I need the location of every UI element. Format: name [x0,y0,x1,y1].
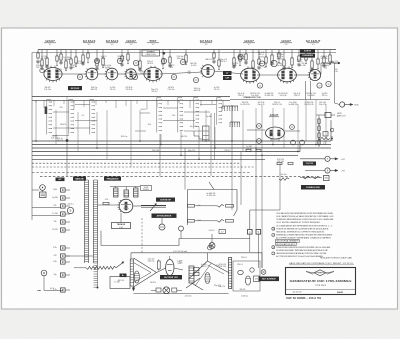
right ladder resistors [318,119,320,124]
cable band 1 rails [84,180,86,263]
vertical trunk x=241 [240,152,242,206]
wire [41,50,43,61]
capacitor C74 [322,64,325,66]
terminal J8 (-HT) [325,168,330,173]
left wire from border [32,207,61,209]
note line 8 [272,233,275,236]
capacitor C54 [138,68,141,70]
resistor R80 [188,205,195,208]
resistor R36 [329,55,331,62]
grid-cap C5 [180,59,185,64]
cable band 2 rails [93,180,95,263]
left wire 3 [32,189,39,191]
wire stub [56,63,58,66]
dark box FREQUENCE [104,177,121,181]
bus wire 9 [32,172,250,174]
rotary switch S7 wafer [219,99,222,101]
wire [298,50,300,57]
NOIR label box [141,186,152,191]
resistor R85 [226,220,234,223]
wire [139,50,141,62]
pin wire [65,213,70,215]
capacitor C10 [35,100,37,103]
pin wire [65,189,70,191]
coupling node E [238,54,243,59]
filter choke FC1 [189,266,194,283]
capacitor C58 [212,60,215,62]
rotary switch S5 wafer [180,99,183,101]
wire [75,50,77,58]
wire drop 16 [255,108,257,148]
step wire near X1 [194,131,203,139]
dashed drop x142 [141,218,143,254]
input jack J2 [40,185,46,191]
wire stub [291,65,293,68]
transformer T2 core diagonals [189,261,208,279]
attenuator slider bar [141,205,166,207]
wire [233,50,235,59]
note line 11 [276,243,297,246]
wire [271,50,273,56]
wire bottom across [66,255,94,257]
resistor R4 [56,56,58,61]
dark box RETOUR [68,86,82,90]
wire [96,50,98,61]
wire to J8 [305,170,325,172]
psu top wire [131,252,262,254]
capacitor C44 [59,61,62,63]
resistor R24 [252,61,254,68]
vertical trunk x=256 [255,148,257,230]
bus riser 1 [330,120,332,141]
resistor R60 [303,176,310,178]
capacitor C15 [83,100,85,107]
dark box ATTENUATEUR [152,214,177,218]
dark box SORTIE HF [156,198,175,202]
resistor R8 [75,57,77,63]
rotary switch S3 wafer [92,101,95,103]
wire drop 8 [139,110,141,141]
tube V1 envelope [44,68,62,81]
resistor R31 [298,56,300,61]
attenuator pad box [40,192,47,198]
meter box M1 [324,176,330,181]
resistor R29 [283,60,285,66]
dark box small [120,274,127,278]
second rail lower [32,99,230,101]
wire [46,50,48,59]
RC network right [323,132,328,137]
comb rail [222,105,238,107]
output jack J1 [340,102,345,107]
capacitor C12 [53,100,55,106]
wire [213,50,215,54]
dark box FUSIBLE [301,185,325,190]
switch junction dot [66,139,69,142]
grid-cap C2 [117,58,122,63]
resistor row under fuse [279,178,289,181]
wire [245,50,247,55]
capacitor C25 [189,100,191,108]
switch S3 frame [89,100,91,135]
test point TP5 [300,140,305,145]
bus riser 2 [299,145,301,152]
TARAGE box [112,223,131,229]
contact comb H2 [229,122,231,126]
coupling node D [193,77,198,82]
resistor R81 [188,220,195,223]
tube V6 envelope [202,65,215,78]
resistor R16 [162,59,164,64]
capacitor C42 [45,65,48,67]
wire [265,50,267,58]
wire [239,50,241,57]
resistor R40 [328,62,334,64]
wire stub [65,68,67,71]
wire [56,50,58,57]
resistor R11 [96,60,98,66]
wire out of V11 [285,130,300,132]
jog wire j [200,104,216,106]
psu diag wires [186,278,200,288]
capacitor C21 [146,100,148,109]
psu top terminal [208,246,212,250]
note line 6 [272,227,275,230]
wire drop 3 [66,97,68,142]
capacitor C68 [282,67,285,69]
note line 14 [272,252,275,255]
capacitor C13 [63,100,65,104]
lamp resistor right [172,288,177,292]
bus wire 10 [40,175,316,177]
vertical trunk x=211 [210,113,212,176]
wire drop 19 [283,108,285,148]
selenium rectifier SR1 [238,270,244,274]
test circle 16 [257,83,262,88]
test point circle 10 [326,81,331,86]
shielded cable band 2 [94,179,98,181]
capacitor C23 [167,100,169,105]
vertical trunk x=214.5 [214,113,216,160]
left border wire down [31,53,33,221]
connector pin P8 [61,254,66,258]
paper grain overlay [0,0,1,1]
wire drop 22 [315,100,317,145]
resistor R17 [169,57,171,63]
jog wire c [53,127,90,129]
capacitor C70 [297,63,300,65]
switch S1 frame [46,100,48,135]
resistor R3 [46,58,48,65]
loop right diag [234,210,238,216]
wire top interstage 6 [214,71,243,74]
capacitor C48 [81,62,84,64]
jog wire g [163,120,195,122]
resistor R21 [233,58,235,65]
transformer T2 secondary [205,273,210,284]
wire [70,50,72,60]
ext box B1 [325,113,331,118]
pin wire [65,255,70,257]
capacitor C56 [168,64,171,66]
loop mid wire [195,205,218,207]
test circle 17 [317,83,322,88]
psu enclosure right wire [261,253,263,268]
wire top interstage 8 [294,74,309,76]
wire top interstage 4 [136,73,147,75]
contact comb H1 [221,106,223,110]
bus wire 8 [32,166,255,168]
grid-cap C4 [161,58,166,63]
jog wire d [75,120,97,122]
vertical trunk x=262 [261,155,263,268]
connector cell [203,134,209,136]
HT dark box 2 [300,54,315,58]
jog wire i [184,130,202,132]
screen box [110,277,130,289]
resistor R22 [239,56,241,61]
note line 10 [276,239,300,242]
plate choke L3 [134,188,139,197]
wire chokes top [110,186,140,188]
wire stub [102,65,104,68]
bus wire 3 [32,147,331,149]
wire drop 20 [297,104,299,152]
wire stub [87,60,89,63]
dial lamp circle B [67,207,73,213]
wire top interstage 2 [98,73,106,75]
wire V9 anode up [320,63,322,74]
bottom heater zigzag [86,266,116,269]
oscillator box label [142,50,160,56]
switch S5 frame [177,98,179,133]
tube V9 envelope [309,69,320,80]
wire boxes down [249,234,251,252]
pin wire [65,205,70,207]
wire stub [317,66,319,69]
gain dark box [223,71,232,75]
test point TP3 [290,125,295,130]
wire drop 1 [35,100,37,141]
T2 stacked boxes [194,268,200,271]
test point TP1 [257,124,262,129]
bus wire 7 [32,162,240,164]
grid resistor R70 [103,202,109,204]
resistor R19 [213,53,215,58]
coupling node C [171,74,176,79]
second rail (cathode bus) [32,96,230,98]
resistor R5 [60,54,62,60]
resistor R33 [311,61,313,68]
top HT rail [38,49,336,51]
anode resistor chain to terminal [321,62,328,64]
dark box SECTEUR ALT [259,277,280,282]
resistor R34 [317,59,319,64]
wire [329,50,331,56]
wire into V11 [247,129,265,131]
wire drop 21 [305,100,307,141]
capacitor C26 [200,100,202,106]
wire J3 down [43,276,45,291]
terminal J7 (+HT) [325,156,330,161]
output tube V12 [119,199,133,213]
wire top interstage 5 [160,72,202,74]
capacitor C17 [105,100,107,103]
transformer T1 core diagonals [134,258,157,273]
tube V5 envelope [144,68,162,81]
wire [37,50,39,54]
capacitor C50 [95,67,98,69]
switch S6 frame [193,98,195,129]
heater arrow [116,263,123,268]
connector pin P6 [61,228,66,232]
wire tube to attenuator [133,205,141,207]
wire [218,50,220,61]
dark box SECTEUR [160,275,182,279]
bias cap box [219,230,226,234]
wire V12 to TARAGE [120,213,122,223]
title divider [286,288,356,290]
cathode resistor R51 [256,149,261,151]
connector pin P7 [61,246,66,250]
connector cell [203,139,209,141]
bias loop diagonal [209,182,214,190]
V9 cathode drops [305,81,307,100]
meter jack J4 [159,224,165,230]
terminal T1 [334,62,338,64]
wire [311,50,313,62]
wire from J2 [42,190,44,192]
electrolytic C30 [245,276,250,285]
capacitor C72 [310,68,313,70]
wire top interstage 3 [118,73,126,75]
capacitor C40 [36,60,39,62]
connector block X1 [203,126,210,141]
grid-cap C3 [133,60,138,65]
capacitor C28 [222,100,224,109]
rotary switch S2 wafer [71,101,74,103]
wire [87,50,89,54]
wire stub [41,67,43,70]
dark box MARCHE [73,177,86,181]
connector pin P1 [61,188,66,192]
resistor R14 [127,54,129,60]
wire to B1 [316,114,325,116]
wire [65,50,67,62]
test point TP2 [257,139,262,144]
resistor R18 [185,55,187,62]
wire stub [305,61,307,64]
resistor R26 [265,57,267,63]
coupling node A [77,74,82,79]
wire to J7 [300,158,325,160]
grid-cap C1 [94,58,99,63]
wire drop 12 [205,110,207,141]
resistor R32 [305,54,307,60]
resistor R25 [258,59,260,64]
psu enclosure left wire [130,253,132,259]
transformer T1 left winding [130,259,133,286]
bias loop top wire [188,189,238,191]
resistor R2 [41,60,43,66]
capacitor C19 [125,100,127,106]
capacitor C52 [120,63,123,65]
junction boxes 4 and 5 [248,230,253,235]
pin wire [65,274,70,276]
resistor R83 [226,205,234,208]
loop mid wire 2 [195,220,218,222]
psu wires [157,268,166,273]
resistor R53 [288,162,293,164]
bus wire 1 [32,140,331,142]
wire stub [239,63,241,66]
switch S2 frame [68,100,70,135]
note line 12 [272,246,275,249]
dark resistor mark left [45,107,48,115]
wire [127,50,129,55]
resistor R13 [121,56,123,61]
plate choke L2 [124,190,129,197]
wire drop 17 [261,105,263,155]
hatched circle [261,270,266,275]
left wire 2 [32,215,61,217]
resistor R12 [102,58,104,65]
input jack left of V1 [40,68,44,72]
resistor R61 [313,176,320,178]
wire stub [265,64,267,67]
wire drop 10 [180,131,182,155]
capacitor C24 [178,100,180,103]
rectifier box (dashed) [233,261,260,291]
test circle F [259,61,264,66]
resistor R28 [278,53,280,58]
wire stub [252,68,254,71]
capacitor C16 [95,100,97,105]
jog wire h [184,111,210,113]
bus wire 4 [32,151,300,153]
SR1 circles [250,268,254,272]
capacitor C20 [136,100,138,104]
cable band 2 lower tail [94,262,98,264]
connector pin P4 [61,212,66,216]
capacitor C18 [115,100,117,108]
resistor R1 [37,53,39,58]
jog wire f [163,107,178,109]
tube V3 envelope [106,68,118,80]
plate choke L1 [114,188,119,197]
title block frame [286,268,356,295]
maker logo (winged badge) [314,270,326,276]
resistor R52 [277,162,282,164]
rotary switch S6 wafer [196,99,199,101]
tube V2 envelope [86,68,98,80]
jack J5 [179,226,184,231]
jog wire e [53,135,69,137]
vertical trunk x=232 [231,105,233,210]
vertical trunk x=185 lower [184,148,186,190]
gain dark box 2 [223,76,232,80]
pin wire [65,197,70,199]
resistor R15 [139,61,141,68]
connector pin P10 [61,273,66,277]
dark box ROUGE [56,178,65,182]
trunk from S-junction [66,141,68,177]
second rail segment right [230,99,330,101]
tube V8 envelope [278,68,297,82]
cathode resistor R50 [246,149,251,151]
switch S7 frame [216,98,218,125]
connector cell [203,130,209,132]
